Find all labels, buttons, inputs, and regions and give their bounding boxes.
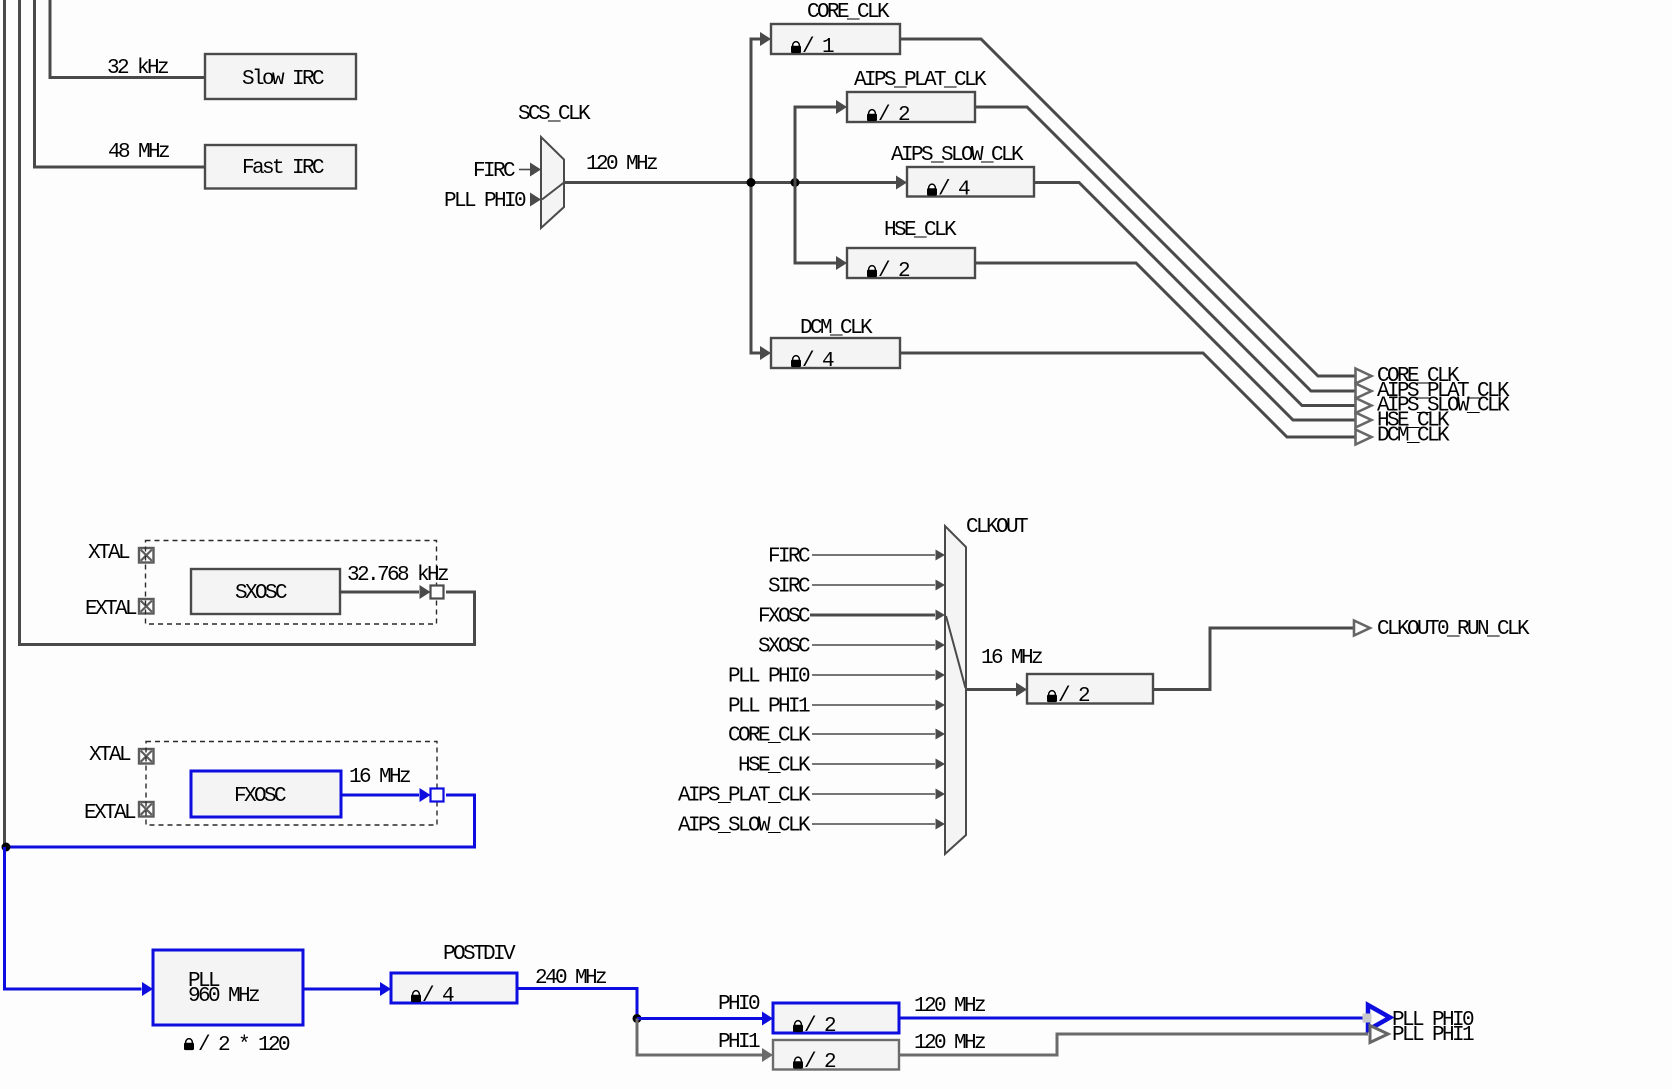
- node CLKOUT0_RUN_CLK output arrow: [1354, 621, 1370, 636]
- svg-text:/ 2: / 2: [804, 1051, 836, 1074]
- svg-text:32.768 kHz: 32.768 kHz: [347, 564, 448, 587]
- svg-text:SCS_CLK: SCS_CLK: [518, 103, 591, 126]
- node PLL PHI0 output arrow: [1368, 1005, 1390, 1030]
- wire AIPS_SLOW_CLK to output: [1034, 183, 1356, 406]
- svg-text:/ 4: / 4: [802, 350, 834, 373]
- svg-text:SIRC: SIRC: [768, 576, 810, 599]
- svg-text:PHI1: PHI1: [718, 1031, 760, 1054]
- svg-text:CLKOUT0_RUN_CLK: CLKOUT0_RUN_CLK: [1377, 618, 1530, 641]
- box SXOSC: [191, 569, 340, 614]
- svg-text:48 MHz: 48 MHz: [108, 141, 169, 164]
- wire PLL input arrow: [142, 982, 153, 996]
- svg-text:HSE_CLK: HSE_CLK: [738, 755, 811, 778]
- svg-text:120 MHz: 120 MHz: [586, 153, 657, 176]
- svg-text:DCM_CLK: DCM_CLK: [1377, 425, 1450, 448]
- svg-text:240 MHz: 240 MHz: [535, 967, 606, 990]
- svg-text:Slow IRC: Slow IRC: [242, 68, 324, 91]
- wire CORE_CLK to output: [900, 39, 1356, 376]
- svg-text:PHI0: PHI0: [718, 993, 760, 1016]
- wire branch vertical x751: [751, 39, 760, 353]
- svg-text:Fast IRC: Fast IRC: [242, 157, 324, 180]
- svg-text:32 kHz: 32 kHz: [107, 57, 168, 80]
- wire FXOSC output: [341, 794, 419, 797]
- divider CLKOUT /2: [1027, 674, 1153, 704]
- node AIPS_SLOW_CLK output arrow: [1356, 398, 1372, 413]
- junction at 751,182.5: [747, 178, 756, 187]
- wire DCM_CLK to output: [900, 353, 1356, 437]
- svg-text:CORE_CLK: CORE_CLK: [807, 1, 890, 24]
- node FXOSC pad: [431, 789, 444, 802]
- svg-text:HSE_CLK: HSE_CLK: [884, 219, 957, 242]
- svg-text:FXOSC: FXOSC: [758, 606, 810, 629]
- svg-text:120 MHz: 120 MHz: [914, 995, 985, 1018]
- svg-text:PLL PHI0: PLL PHI0: [728, 666, 810, 689]
- svg-text:PLL PHI0: PLL PHI0: [444, 190, 526, 213]
- node SXOSC pad: [431, 586, 444, 599]
- svg-text:AIPS_PLAT_CLK: AIPS_PLAT_CLK: [678, 785, 811, 808]
- svg-text:XTAL: XTAL: [88, 542, 130, 565]
- svg-text:/ 1: / 1: [802, 36, 834, 59]
- dashed boundary SXOSC: [146, 541, 437, 625]
- wire AIPS_PLAT_CLK to output: [975, 107, 1356, 391]
- svg-text:/ 2: / 2: [804, 1015, 836, 1038]
- svg-text:/ 2 * 120: / 2 * 120: [198, 1034, 290, 1057]
- svg-text:FXOSC: FXOSC: [234, 785, 286, 808]
- svg-text:/ 2: / 2: [1058, 685, 1090, 708]
- mux SCS_CLK select line: [542, 183, 564, 200]
- svg-text:FIRC: FIRC: [473, 160, 515, 183]
- node handle square: [1363, 1014, 1372, 1023]
- svg-text:CLKOUT: CLKOUT: [966, 516, 1028, 539]
- svg-text:PLL PHI1: PLL PHI1: [728, 696, 810, 719]
- box Fast IRC: [205, 145, 356, 189]
- wire branch vertical x795: [795, 107, 836, 263]
- svg-text:120 MHz: 120 MHz: [914, 1032, 985, 1055]
- wire blue bus down to PLL: [5, 847, 142, 989]
- wire SXOSC output: [340, 591, 419, 594]
- svg-text:/ 2: / 2: [878, 104, 910, 127]
- svg-text:SXOSC: SXOSC: [758, 636, 810, 659]
- node AIPS_PLAT_CLK output arrow: [1356, 384, 1372, 399]
- wire to PHI1 divider: [637, 1019, 762, 1056]
- node CORE_CLK output arrow: [1356, 369, 1372, 384]
- svg-text:AIPS_SLOW_CLK: AIPS_SLOW_CLK: [891, 144, 1024, 167]
- svg-text:CORE_CLK: CORE_CLK: [728, 725, 811, 748]
- wire PHI0 output: [899, 1017, 1366, 1020]
- box Slow IRC: [205, 54, 356, 99]
- svg-text:XTAL: XTAL: [89, 744, 131, 767]
- svg-text:DCM_CLK: DCM_CLK: [800, 317, 873, 340]
- svg-text:/ 4: / 4: [422, 985, 454, 1008]
- wire FXOSC net to left bus: [5, 795, 475, 847]
- wire bus line 4 to Slow IRC: [50, 0, 205, 78]
- svg-text:/ 2: / 2: [878, 260, 910, 283]
- node PLL PHI1 output arrow: [1370, 1026, 1388, 1043]
- label PLL multiplier lock: [184, 1039, 194, 1051]
- svg-text:FIRC: FIRC: [768, 546, 810, 569]
- wire CLKOUT divider to output: [1153, 628, 1354, 690]
- divider PHI1: [773, 1040, 899, 1070]
- svg-text:SXOSC: SXOSC: [235, 582, 287, 605]
- junction FXOSC net at left bus: [2, 843, 11, 852]
- svg-text:16 MHz: 16 MHz: [349, 766, 410, 789]
- junction PHI split: [633, 1014, 642, 1023]
- wire HSE_CLK to output: [975, 263, 1356, 420]
- divider PHI0: [773, 1003, 899, 1033]
- node DCM_CLK output arrow: [1356, 430, 1372, 445]
- wire bus line 1 gray upper: [3, 0, 6, 847]
- dashed boundary FXOSC: [146, 742, 437, 826]
- svg-text:/ 4: / 4: [938, 179, 970, 202]
- svg-text:EXTAL: EXTAL: [84, 802, 136, 825]
- node HSE_CLK output arrow: [1356, 413, 1372, 428]
- svg-text:AIPS_SLOW_CLK: AIPS_SLOW_CLK: [678, 815, 811, 838]
- wire PHI1 output: [899, 1034, 1368, 1055]
- junction at 795,182.5: [791, 178, 800, 187]
- wire to PHI0 divider: [637, 1017, 762, 1020]
- wire bus line 3 to Fast IRC: [35, 0, 206, 167]
- svg-text:POSTDIV: POSTDIV: [443, 943, 516, 966]
- wire CLKOUT mux output: [966, 688, 1016, 691]
- svg-text:EXTAL: EXTAL: [85, 598, 137, 621]
- svg-text:AIPS_PLAT_CLK: AIPS_PLAT_CLK: [854, 69, 987, 92]
- svg-text:PLL PHI1: PLL PHI1: [1392, 1024, 1474, 1047]
- box PLL: [153, 950, 303, 1025]
- wire bus line 2 SXOSC return loop: [20, 0, 475, 645]
- mux CLKOUT select line: [946, 616, 966, 688]
- svg-text:960 MHz: 960 MHz: [188, 985, 259, 1008]
- wire POSTDIV output: [517, 989, 637, 1019]
- svg-text:16 MHz: 16 MHz: [981, 647, 1042, 670]
- box FXOSC: [191, 771, 341, 817]
